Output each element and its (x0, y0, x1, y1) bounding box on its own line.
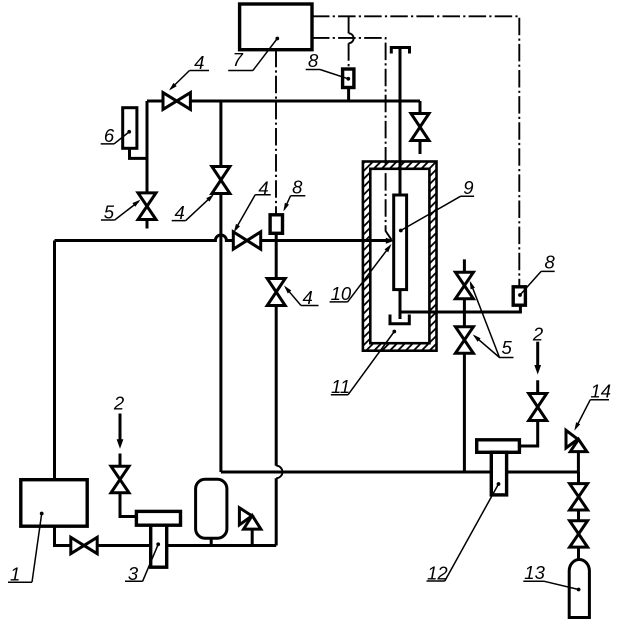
svg-text:3: 3 (128, 563, 139, 584)
svg-text:1: 1 (10, 564, 20, 585)
svg-text:4: 4 (175, 202, 185, 223)
svg-text:12: 12 (427, 563, 448, 584)
svg-text:4: 4 (194, 52, 204, 73)
svg-text:4: 4 (303, 287, 313, 308)
svg-text:8: 8 (544, 251, 555, 272)
svg-text:10: 10 (331, 283, 352, 304)
svg-text:14: 14 (590, 381, 611, 402)
svg-text:2: 2 (532, 323, 544, 344)
svg-text:8: 8 (308, 50, 319, 71)
svg-text:5: 5 (104, 201, 115, 222)
svg-text:6: 6 (104, 125, 115, 146)
svg-text:8: 8 (292, 176, 303, 197)
svg-text:4: 4 (258, 177, 268, 198)
svg-text:13: 13 (524, 562, 545, 583)
svg-text:11: 11 (331, 376, 350, 397)
svg-text:2: 2 (113, 393, 125, 414)
svg-text:7: 7 (232, 49, 243, 70)
svg-text:5: 5 (502, 337, 513, 358)
svg-text:9: 9 (463, 177, 473, 198)
